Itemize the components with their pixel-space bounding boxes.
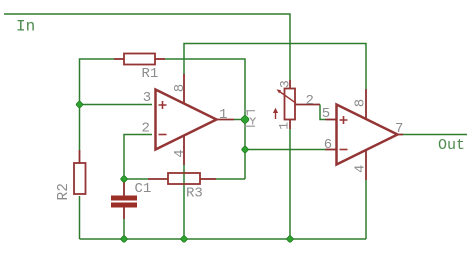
pin pot wiper pin2 stub <box>295 104 320 106</box>
pin R2 top stub <box>79 150 81 163</box>
pin opamp2 pin6 stub <box>326 149 337 151</box>
svg-text:2: 2 <box>142 121 150 137</box>
wire V+ rail pin8 to pin8 <box>184 44 366 90</box>
svg-text:5: 5 <box>322 106 330 122</box>
potentiometer R4 <box>273 80 314 130</box>
svg-text:8: 8 <box>172 84 188 92</box>
svg-text:4: 4 <box>172 149 188 157</box>
resistor R2 <box>56 163 86 201</box>
capacitor C1 <box>111 181 151 208</box>
svg-text:7: 7 <box>395 121 403 137</box>
svg-text:8: 8 <box>352 99 368 107</box>
wire wiper to pin 5 <box>320 105 326 120</box>
wire Out net <box>403 134 467 136</box>
resistor R3 <box>168 172 203 202</box>
pin pot pin3 stub <box>289 80 291 89</box>
pin stubs dark red <box>80 59 404 219</box>
junction node output big <box>240 115 249 124</box>
svg-text:R3: R3 <box>186 186 203 202</box>
svg-text:2: 2 <box>306 93 314 109</box>
junction node C1 bottom <box>120 235 128 243</box>
wire R3 right to mid column <box>216 178 245 180</box>
pin opamp2 pin8 stub <box>365 89 367 119</box>
op-amp U1B <box>322 99 404 173</box>
wire C1 node to R3 <box>124 178 148 180</box>
junction node pot ground <box>286 235 294 243</box>
wire opamp1 output to node <box>234 119 245 121</box>
wire R1 left net <box>80 59 115 150</box>
wire opamp2 pin4 down <box>365 180 367 239</box>
wire C1 bottom <box>123 219 125 239</box>
wire R2 bottom <box>79 196 81 239</box>
pin pot pin1 stub <box>289 120 291 130</box>
pin R3 left stub <box>148 178 168 180</box>
svg-text:4: 4 <box>353 165 369 173</box>
junction node C1 top <box>120 175 128 183</box>
pin R3 right stub <box>200 178 216 180</box>
pin R1 right stub <box>155 58 165 60</box>
svg-text:1: 1 <box>219 107 227 123</box>
wire pot bottom to ground rail <box>289 129 291 239</box>
svg-text:6: 6 <box>324 137 332 153</box>
junction node pin3 <box>76 101 84 109</box>
pin opamp1 pin1 stub <box>217 119 235 121</box>
pin C1 bottom stub <box>123 207 125 219</box>
pin opamp2 pin7 stub <box>398 134 404 136</box>
pin opamp1 pin8 stub <box>183 74 185 104</box>
wire pin 2 net to C1 node <box>124 135 152 180</box>
pin C1 top stub <box>123 180 125 196</box>
wire pin 3 net <box>80 104 153 106</box>
pin opamp1 pin4 stub <box>183 136 185 166</box>
wire In net top <box>4 14 290 80</box>
wire opamp1 pin4 down <box>183 165 185 239</box>
wire R1 right net to mid column <box>165 59 245 179</box>
pin R1 left stub <box>114 58 124 60</box>
pot wiper arrow <box>275 113 277 120</box>
pot adjust arrow diagonal <box>280 92 297 104</box>
svg-text:1: 1 <box>277 122 292 130</box>
svg-text:3: 3 <box>277 80 292 88</box>
svg-text:C1: C1 <box>135 181 152 197</box>
op-amp U1A <box>142 84 228 158</box>
resistor R1 <box>124 54 158 83</box>
junction node pin4 ground <box>180 235 188 243</box>
svg-text:Out: Out <box>438 137 465 154</box>
pin opamp2 pin5 stub <box>326 119 337 121</box>
wire opamp1 pin4 crossing R3 body <box>183 172 185 185</box>
svg-text:R2: R2 <box>56 183 72 200</box>
node marker glyphs near output junction <box>244 111 256 127</box>
pin opamp2 pin4 stub <box>365 150 367 180</box>
wire ground rail bottom <box>80 238 367 240</box>
svg-text:In: In <box>16 18 35 36</box>
svg-text:R1: R1 <box>142 66 159 82</box>
svg-text:3: 3 <box>143 90 151 106</box>
wire node to pin 6 <box>245 149 326 151</box>
junction node pin6 tap <box>241 146 249 154</box>
